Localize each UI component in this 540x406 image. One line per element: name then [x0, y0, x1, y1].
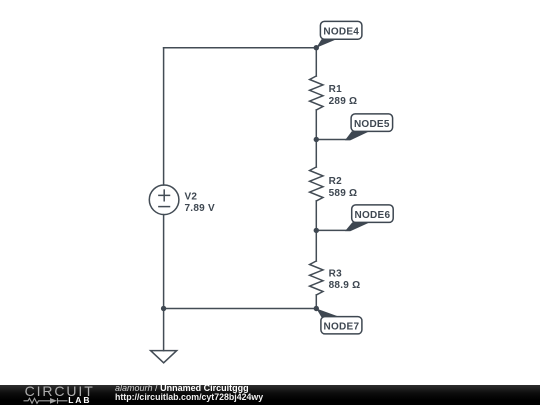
- svg-text:88.9 Ω: 88.9 Ω: [329, 280, 361, 291]
- node flag pointer NODE7: [316, 309, 340, 318]
- wire NODE5 flag lead: [316, 139, 349, 141]
- footer bar: [0, 385, 540, 406]
- svg-text:R3: R3: [329, 268, 342, 279]
- wire R2 to NODE6: [315, 201, 317, 230]
- node flag box NODE6: [352, 205, 394, 223]
- wire left rail upper: [163, 48, 165, 185]
- wire R1 to NODE5: [315, 110, 317, 140]
- wire left rail lower: [163, 215, 165, 309]
- svg-text:V2: V2: [185, 192, 198, 203]
- node flag box NODE7: [321, 317, 362, 334]
- svg-text:NODE4: NODE4: [323, 27, 359, 38]
- svg-text:289 Ω: 289 Ω: [329, 96, 358, 107]
- voltage source V2 plus sign: [159, 190, 170, 201]
- svg-text:NODE6: NODE6: [355, 210, 391, 221]
- svg-text:NODE5: NODE5: [354, 119, 390, 130]
- svg-text:589 Ω: 589 Ω: [329, 188, 358, 199]
- wire top horizontal: [164, 47, 317, 49]
- CircuitLab logo: [0, 385, 100, 406]
- node flag pointer NODE4: [316, 39, 336, 48]
- svg-text:7.89 V: 7.89 V: [185, 203, 215, 214]
- svg-text:R1: R1: [329, 84, 342, 95]
- resistor R2: [310, 167, 323, 201]
- junction dot NODE7: [314, 306, 319, 311]
- junction dot ground: [161, 306, 166, 311]
- wire R3 to NODE7: [315, 295, 317, 309]
- wire right rail segment NODE4 to R1: [315, 48, 317, 76]
- node flag pointer NODE6: [345, 222, 370, 231]
- svg-text:R2: R2: [329, 176, 342, 187]
- svg-text:LAB: LAB: [68, 395, 91, 405]
- footer attribution text: [115, 384, 415, 403]
- wire NODE6 flag lead: [316, 229, 349, 231]
- junction dot NODE6: [314, 228, 319, 233]
- wire NODE6 to R3: [315, 230, 317, 261]
- resistor R3: [310, 261, 323, 295]
- wire bottom horizontal: [164, 308, 317, 310]
- voltage source V2 circle: [149, 185, 179, 215]
- wire NODE5 to R2: [315, 140, 317, 168]
- resistor R1: [310, 76, 323, 110]
- node flag pointer NODE5: [345, 131, 370, 140]
- node flag box NODE4: [320, 21, 362, 39]
- voltage source V2 minus sign: [159, 206, 170, 208]
- svg-text:NODE7: NODE7: [324, 322, 360, 333]
- wire ground stem: [163, 309, 165, 351]
- ground: [151, 351, 177, 363]
- node flag box NODE5: [351, 114, 393, 131]
- junction dot NODE5: [314, 137, 319, 142]
- junction dot NODE4: [314, 45, 319, 50]
